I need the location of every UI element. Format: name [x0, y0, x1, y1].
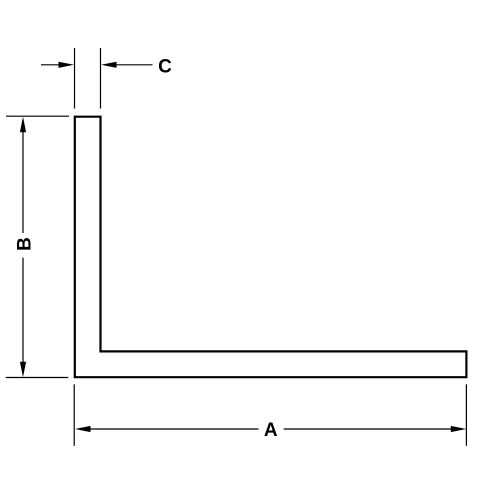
- arrowhead A left (points left): [75, 426, 91, 432]
- svg-text:B: B: [14, 237, 35, 251]
- arrowhead C right (points left): [101, 62, 117, 68]
- arrowhead C left (points right): [59, 62, 75, 68]
- dimension line A left segment: [87, 428, 259, 430]
- svg-text:A: A: [264, 420, 278, 441]
- angle profile outline: [75, 117, 467, 378]
- extension line A left: [73, 384, 75, 446]
- dimension line A right segment: [284, 428, 454, 430]
- dimension line B upper segment: [22, 130, 24, 233]
- arrowhead B top (points up): [20, 117, 26, 133]
- svg-text:C: C: [158, 56, 172, 77]
- extension line C right: [100, 48, 102, 109]
- dimension line C right segment: [112, 64, 153, 66]
- extension line A right: [465, 384, 467, 446]
- extension line B top: [6, 115, 69, 117]
- dimension line B lower segment: [22, 258, 24, 364]
- dimension line C left segment: [41, 64, 63, 66]
- extension line C left: [74, 48, 76, 109]
- arrowhead A right (points right): [451, 426, 467, 432]
- extension line B bottom: [6, 377, 69, 379]
- arrowhead B bottom (points down): [20, 362, 26, 378]
